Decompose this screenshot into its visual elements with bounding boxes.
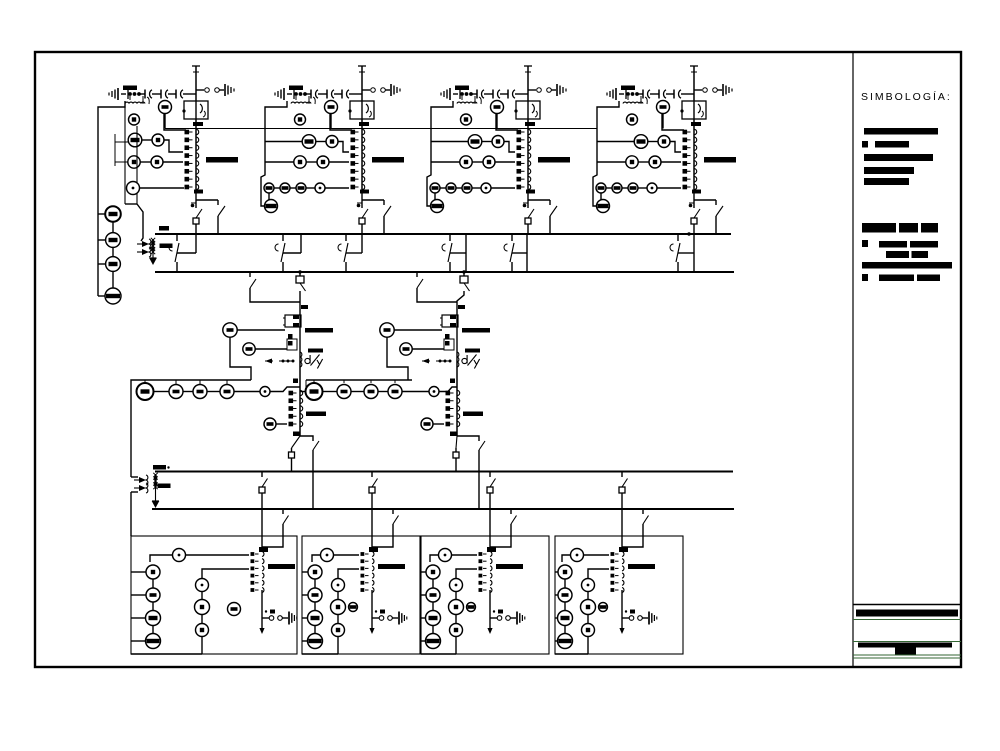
feeder F1 CT label bar [268, 564, 295, 569]
legend text bar 2 [862, 141, 868, 148]
LV arrester tag 2 [158, 484, 171, 489]
title block top rule [853, 604, 961, 606]
bay L3 line disconnect DS1 [476, 93, 477, 95]
bay L2 relay B drop wire [330, 114, 352, 131]
bay L1 line disconnect DS2 [160, 90, 162, 99]
legend notes heading bar [862, 223, 896, 233]
feeder F1 breaker downcomer from LV bus A [261, 472, 263, 478]
metering row group2 circle 3 [364, 385, 378, 399]
bay L3 wiring rail V [427, 101, 453, 206]
svg-text:SIMBOLOGÍA:: SIMBOLOGÍA: [861, 90, 952, 103]
bus coupler disconnect S1 [176, 234, 178, 241]
bay L1 breaker CB1 and disconnects to bus [195, 189, 197, 203]
transformer T2 vector group symbol [462, 358, 467, 363]
feeder F1 left relay column [146, 565, 160, 579]
feeder F2 lower tag [380, 610, 385, 614]
bay L3 trap tag [525, 122, 535, 126]
legend notes bar 4 [862, 262, 952, 269]
bus B tie vertical right [526, 253, 528, 272]
feeder F4 lower tag [630, 610, 635, 614]
bay L3 bus side branch [528, 199, 550, 201]
bus coupler disconnect S5 [511, 234, 513, 241]
LV busbar B [152, 508, 734, 510]
bay L3 relay circle B [461, 114, 472, 125]
feeder F4 top tag [619, 547, 628, 552]
feeder F4 top relay circle [571, 549, 584, 562]
bay L4 main line upper [693, 119, 695, 189]
feeder F1 mid relay column [202, 569, 249, 578]
bay L3 PT winding ruffle [457, 102, 461, 103]
bay L2 lower tag [360, 190, 369, 194]
bay L1 aux verticals [114, 134, 116, 166]
title block rule 4 green [853, 654, 961, 656]
feeder F1 lower tag [270, 610, 275, 614]
bay L4 line disconnect DS1 [642, 93, 643, 95]
bay L4 relay pair row 1 [634, 135, 648, 149]
bay L3 CT stack [517, 130, 522, 135]
line bay L3 incoming overhead line [527, 66, 529, 101]
bay L4 relay below row 4 [597, 200, 610, 213]
bay L2 earthing switch and ground E2 [362, 89, 370, 91]
transformer T2 label bar 2 [465, 349, 480, 353]
bay L2 trap tag [359, 122, 369, 126]
bay L3 coupling capacitor PT and ground [449, 88, 451, 100]
bay L4 meter relay circle A [657, 101, 670, 114]
feeder F3 main line [489, 509, 491, 547]
feeder F3 left relay column [426, 565, 440, 579]
feeder F2 disconnect branch [392, 509, 394, 514]
feeder F2 earthing switch chain [372, 617, 379, 619]
bay L2 relay row 4 [264, 183, 274, 193]
title block company bar [856, 610, 958, 617]
feeder F3 cable arrow [487, 628, 492, 634]
bay L4 relay row 4 [596, 183, 606, 193]
bay L1 CT stack [185, 130, 190, 135]
bay L4 coupling capacitor PT and ground [615, 88, 617, 100]
bay L3 main line upper [527, 119, 529, 189]
transformer T1 LV CT stack [289, 391, 294, 396]
bay L4 line trap LT4 [682, 101, 706, 119]
legend text bar 3 [864, 154, 933, 161]
bay L3 meter relay circle A [491, 101, 504, 114]
bay L1 junction dots [128, 92, 132, 96]
transformer T2 relay HV A [380, 323, 394, 337]
bay L3 junction dots [460, 92, 464, 96]
bay L2 relay pair row 2 [294, 156, 306, 168]
bay L4 PT winding ruffle [623, 102, 627, 103]
metering row group1 circle 1 [137, 383, 154, 400]
transformer T2 mid tag [450, 379, 455, 384]
bus A surge arrester column [152, 239, 154, 258]
bay L2 CT stack [351, 130, 356, 135]
feeder F2 attached small relay [349, 603, 358, 612]
bay L2 relay circle B [295, 114, 306, 125]
bay L3 earthing switch and ground E3 [528, 89, 536, 91]
bay L4 line disconnect DS2 [658, 90, 660, 99]
bay L4 earthing switch and ground E4 [694, 89, 702, 91]
feeder F2 top relay circle [321, 549, 334, 562]
bus coupler disconnect S2 [282, 234, 284, 241]
bay L2 main line upper [361, 119, 363, 189]
transformer T2 LV CT stack [446, 391, 451, 396]
feeder F2 main line [371, 509, 373, 547]
bay L1 relay pair row 1 [128, 133, 142, 147]
transformer T1 breaker downcomer [299, 272, 301, 276]
bay L4 CT stack [683, 130, 688, 135]
feeder F4 cable arrow [619, 628, 624, 634]
feeder F2 top tag [369, 547, 378, 552]
feeder F2 cable arrow [369, 628, 374, 634]
feeder F3 attached small relay [467, 603, 476, 612]
main busbar A 115kV [155, 233, 731, 235]
coupler S6 elbow link [678, 252, 694, 254]
line bay L4 incoming overhead line [693, 66, 695, 101]
feeder F3 CT label bar [496, 564, 523, 569]
bay L1 metering circle row4 single [127, 182, 140, 195]
bay L1 relay circle B [129, 114, 140, 125]
transformer T1 relay HV A [223, 323, 237, 337]
transformer T2 LV bypass branch [457, 436, 479, 441]
feeder F1 cable arrow [259, 628, 264, 634]
transformer T2 disconnect downcomer [416, 272, 418, 277]
grounding transformer at bus A [125, 203, 137, 205]
bay L2 coupling capacitor PT and ground [283, 88, 285, 100]
bay L2 wiring rail V [261, 101, 287, 206]
feeder F4 disconnect branch [642, 509, 644, 514]
LV grounding transformer [134, 479, 139, 481]
metering row group1 circle 2 [169, 385, 183, 399]
bay L3 label tag [455, 86, 469, 91]
bus arrester tag 2 [160, 244, 173, 249]
bay L2 meter relay circle A [325, 101, 338, 114]
legend notes bar 2 [862, 240, 868, 247]
transformer T1 lower tag [293, 432, 300, 437]
bay L4 bus side branch [694, 199, 716, 201]
bay L4 label tag [621, 86, 635, 91]
feeder F3 top tag [487, 547, 496, 552]
bay L3 relay below row 4 [431, 200, 444, 213]
transformer T1 disconnect downcomer [249, 272, 251, 277]
transformer T2 label bar 3 [463, 412, 483, 417]
feeder metering column circle M3 [106, 257, 121, 272]
bay L1 bus side branch [196, 199, 218, 201]
bay L4 line disconnect DS3 [673, 90, 675, 99]
metering row group2 circle 4 [388, 385, 402, 399]
metering row rail group 2 [306, 379, 412, 381]
bay L3 line trap LT3 [516, 101, 540, 119]
transformer T1 label bar 1 [305, 328, 333, 333]
bay L1 coupling capacitor PT and ground [117, 88, 119, 100]
coupler S5 elbow link [512, 252, 527, 254]
feeder F4 earthing switch chain [622, 617, 629, 619]
bay L4 trap tag [691, 122, 701, 126]
bay L2 PT winding ruffle [291, 102, 295, 103]
LV busbar A [155, 471, 733, 473]
bay L4 wiring rail V [593, 101, 619, 206]
metering row group1 small circle [260, 387, 270, 397]
feeder F2 CT label bar [378, 564, 405, 569]
feeder F1 enclosure box [131, 536, 297, 654]
transformer T2 label bar 1 [462, 328, 490, 333]
bay L3 lower tag [526, 190, 535, 194]
transformer T1 mid tag [293, 379, 298, 384]
transformer T1 relay LV [264, 418, 276, 430]
bay L4 lower tag [692, 190, 701, 194]
legend notes bar 3 [886, 251, 909, 258]
transformer T1 LV breaker downcomer [292, 436, 301, 448]
feeder F1 top tag [259, 547, 268, 552]
bus coupler disconnect S6 [677, 234, 679, 241]
legend text bar 1 [864, 128, 938, 135]
transformer T2 breaker downcomer [463, 272, 465, 276]
bay L1 CT label bar [206, 157, 238, 163]
bay L1 lower tag [194, 190, 203, 194]
coupler S1 elbow link [177, 252, 196, 254]
bay L1 line disconnect DS3 [175, 90, 177, 99]
transformer T2 lower tag [450, 432, 457, 437]
bay L1 line trap LT1 [184, 101, 208, 119]
bay L1 label tag [123, 86, 137, 91]
transformer T1 HV tag [301, 305, 308, 309]
metering row group2 circle 1 [306, 383, 323, 400]
bus coupler disconnect S4 [449, 234, 451, 241]
feeder F4 CT stack [611, 552, 615, 556]
bay L1 relay pair row 2 [128, 156, 140, 168]
main busbar B 115kV [155, 271, 734, 273]
feeder F3 top relay circle [439, 549, 452, 562]
bay L4 breaker CB4 and disconnects to bus [693, 189, 695, 203]
title block rule 5 green [853, 657, 961, 659]
metering row group2 small circle [429, 387, 439, 397]
feeder F4 CT label bar [628, 564, 655, 569]
feeder F3 breaker downcomer from LV bus A [489, 472, 491, 478]
title block rule 2 green [853, 619, 961, 621]
feeder F2 breaker downcomer from LV bus A [371, 472, 373, 478]
feeder F2 enclosure box [302, 536, 420, 654]
feeder F1 top relay circle [173, 549, 186, 562]
feeder F3 earthing switch chain [490, 617, 497, 619]
feeder metering column circle M1 [105, 206, 121, 222]
bay L2 line disconnect DS3 [341, 90, 343, 99]
line bay L1 incoming overhead line [195, 66, 197, 101]
bay L3 relay pair row 2 [460, 156, 472, 168]
transformer T1 tap changer box [285, 315, 301, 327]
bay L2 CT label bar [372, 157, 404, 163]
bay L1 meter relay circle A [159, 101, 172, 114]
feeder F1 main line [261, 509, 263, 547]
bay L1 main line upper [195, 119, 197, 189]
bay L1 trap tag [193, 122, 203, 126]
bay L1 relay B drop wire [164, 114, 186, 131]
transformer T1 neutral arrow cluster [279, 360, 293, 362]
transformer T1 label bar 3 [306, 412, 326, 417]
bay L2 line disconnect DS1 [310, 93, 311, 95]
bus coupler disconnect S3 [345, 234, 347, 241]
feeder metering column circle M2 [106, 233, 121, 248]
transformer T1 main line mid [299, 360, 301, 436]
transformer T1 vector group symbol [305, 358, 310, 363]
metering row group1 circle 3 [193, 385, 207, 399]
bay L3 relay row 4 [430, 183, 440, 193]
transformer T2 relay HV B [400, 343, 412, 355]
bay L1 left PT rail [98, 101, 125, 296]
drawing border frame [35, 52, 961, 667]
metering row rail group 1 [131, 380, 251, 391]
feeder F4 breaker downcomer from LV bus A [621, 472, 623, 478]
transformer T1 winding arcs [300, 352, 302, 357]
title block rule 3 green [853, 641, 961, 643]
feeder F3 CT stack [479, 552, 483, 556]
LV arrester tag 1 [153, 465, 166, 470]
bay L4 relay circle B [627, 114, 638, 125]
coupler S4 elbow link [450, 252, 466, 254]
feeder F3 enclosure box [421, 536, 549, 654]
bay L3 breaker CB3 and disconnects to bus [527, 189, 529, 203]
transformer T2 HV tag [458, 305, 465, 309]
transformer T1 LV bypass branch [300, 436, 313, 441]
legend panel divider [852, 52, 854, 667]
legend text bar 4 [864, 167, 914, 174]
transformer T1 relay HV B [243, 343, 255, 355]
feeder F2 mid relay column [338, 569, 359, 578]
feeder F2 left relay column [308, 565, 322, 579]
transformer T1 label bar 2 [308, 349, 323, 353]
LV bus rail left drop [130, 391, 132, 477]
bay L3 relay pair row 1 [468, 135, 482, 149]
transformer T2 winding arcs [457, 352, 459, 357]
bay L3 line disconnect DS3 [507, 90, 509, 99]
bus arrester tag 1 [159, 226, 169, 231]
feeder F4 attached small relay [599, 603, 608, 612]
bay L1 line disconnect DS1 [144, 93, 145, 95]
line bay L2 incoming overhead line [361, 66, 363, 101]
transformer T2 HV CT squares [445, 334, 450, 339]
legend notes bar 5 [862, 274, 868, 281]
metering row group2 circle 2 [337, 385, 351, 399]
transformer T2 LV breaker downcomer [456, 436, 457, 448]
LV bus surge arrester column [155, 474, 157, 501]
bay L2 label tag [289, 86, 303, 91]
feeder F1 CT stack [251, 552, 255, 556]
feeder F1 disconnect branch [282, 509, 284, 514]
title block drawing name bar [858, 643, 952, 648]
inter-bay tie wire [165, 128, 597, 130]
feeder F1 aux relay circle [228, 603, 241, 616]
feeder metering column circle M4 [105, 288, 121, 304]
coupler S2 elbow link [283, 252, 301, 254]
bay L4 relay pair row 2 [626, 156, 638, 168]
feeder F4 left relay column [558, 565, 572, 579]
bay L2 junction dots [294, 92, 298, 96]
feeder F1 earthing switch chain [262, 617, 269, 619]
bay L3 line disconnect DS2 [492, 90, 494, 99]
bay L3 relay B drop wire [496, 114, 518, 131]
feeder F3 mid relay column [456, 569, 477, 578]
coupler S3 elbow link [346, 252, 362, 254]
metering row group1 circle 4 [220, 385, 234, 399]
bay L2 bus side branch [362, 199, 384, 201]
feeder F4 enclosure box [555, 536, 683, 654]
bay L4 relay B drop wire [662, 114, 684, 131]
bay L2 line trap LT2 [350, 101, 374, 119]
transformer T2 main line mid [456, 360, 458, 436]
feeder F3 lower tag [498, 610, 503, 614]
bay L4 CT label bar [704, 157, 736, 163]
transformer T2 relay LV [421, 418, 433, 430]
feeder F2 CT stack [361, 552, 365, 556]
feeder F3 disconnect branch [510, 509, 512, 514]
bay L4 junction dots [626, 92, 630, 96]
bus B tie vertical at T2 [465, 253, 467, 272]
transformer T2 tap changer box [442, 315, 458, 327]
feeder F4 mid relay column [588, 569, 609, 578]
transformer T1 HV CT squares [288, 334, 293, 339]
bay L2 line disconnect DS2 [326, 90, 328, 99]
bay L2 relay below row 4 [265, 200, 278, 213]
bay L1 PT winding ruffle [125, 102, 129, 103]
bay L2 relay pair row 1 [302, 135, 316, 149]
bay L1 earthing switch and ground E1 [196, 89, 204, 91]
bay L3 CT label bar [538, 157, 570, 163]
legend text bar 5 [864, 178, 909, 185]
bay L2 breaker CB2 and disconnects to bus [361, 189, 363, 203]
feeder F4 main line [621, 509, 623, 547]
transformer T2 neutral arrow cluster [436, 360, 450, 362]
